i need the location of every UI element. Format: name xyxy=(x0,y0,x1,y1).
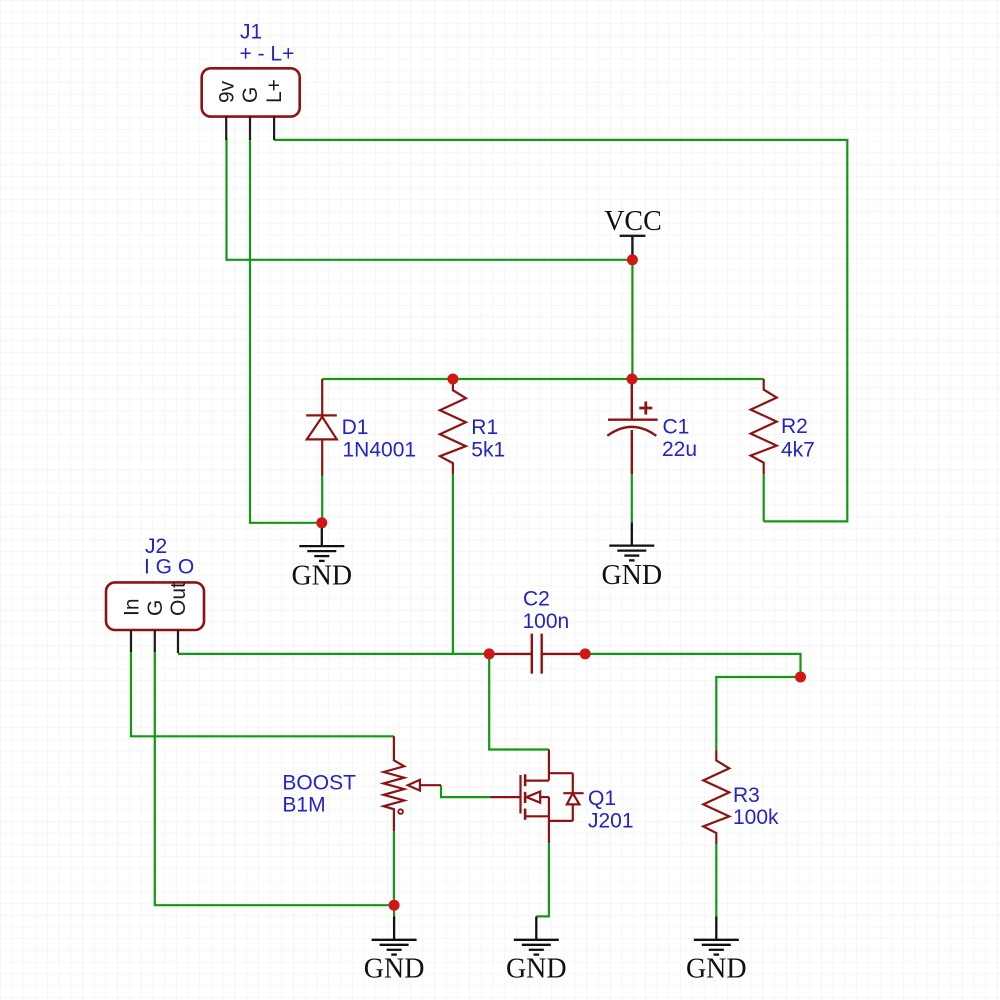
svg-text:J1: J1 xyxy=(240,21,262,44)
wire D1 cathode to GND junction xyxy=(321,475,323,523)
svg-text:22u: 22u xyxy=(662,438,697,461)
svg-text:L+: L+ xyxy=(263,79,286,103)
svg-text:R1: R1 xyxy=(471,416,498,439)
svg-text:+ - L+: + - L+ xyxy=(240,43,295,66)
wire pot wiper to Q1 gate xyxy=(441,785,491,797)
svg-text:B1M: B1M xyxy=(282,794,325,817)
svg-text:GND: GND xyxy=(686,954,747,985)
ground D1 xyxy=(299,523,344,561)
svg-text:100k: 100k xyxy=(733,806,779,829)
ground C1 xyxy=(609,522,654,560)
capacitor C2 xyxy=(489,634,585,674)
junction node C2 left xyxy=(484,648,495,659)
transistor Q1 xyxy=(491,750,584,844)
junction node D1 GND xyxy=(316,517,327,528)
wire R2 bottom xyxy=(763,474,765,521)
svg-text:Out: Out xyxy=(167,582,190,616)
power flag VCC xyxy=(620,236,646,260)
connector J1 xyxy=(202,68,300,140)
svg-text:D1: D1 xyxy=(342,416,369,439)
svg-text:R3: R3 xyxy=(733,784,760,807)
wire net VCC top from J1 pin3 L+ xyxy=(274,140,847,522)
svg-text:I G O: I G O xyxy=(144,556,194,579)
junction node rail R1 xyxy=(447,374,458,385)
svg-text:GND: GND xyxy=(364,954,425,985)
svg-text:VCC: VCC xyxy=(604,206,662,237)
wire Q1 source to GND xyxy=(536,843,549,916)
wire pot bottom to junction xyxy=(393,831,395,905)
svg-text:G: G xyxy=(239,87,262,103)
svg-text:1N4001: 1N4001 xyxy=(343,438,417,461)
diode D1 xyxy=(306,379,337,476)
wire C2 left node down to Q1 drain xyxy=(489,654,549,750)
wire R1 bottom to C2 node xyxy=(452,474,454,654)
wire C1 bottom to GND xyxy=(631,474,633,522)
junction node C2 right xyxy=(580,648,591,659)
ground R3 xyxy=(694,917,739,955)
wire pot junction to GND stub xyxy=(393,905,395,916)
svg-text:C1: C1 xyxy=(663,416,690,439)
resistor R1 xyxy=(440,379,466,474)
svg-text:R2: R2 xyxy=(781,415,808,438)
wire J2 G to pot-bottom junction xyxy=(155,652,394,906)
svg-text:J201: J201 xyxy=(588,810,634,833)
svg-text:G: G xyxy=(144,600,167,616)
svg-text:4k7: 4k7 xyxy=(781,439,815,462)
junction node R3 top xyxy=(795,672,806,683)
svg-text:GND: GND xyxy=(506,954,567,985)
ground BOOST pot xyxy=(372,917,417,955)
potentiometer BOOST xyxy=(384,736,441,831)
svg-text:In: In xyxy=(120,598,143,616)
wire VCC rail horizontal xyxy=(322,378,764,380)
wire J1 pin2 G to GND junction xyxy=(250,139,322,523)
svg-text:9v: 9v xyxy=(216,80,239,103)
wire VCC vertical drop xyxy=(631,260,633,379)
wire J2 Out to C2 left node xyxy=(178,653,489,655)
wire R3 bottom to GND xyxy=(715,844,717,917)
connector J2 xyxy=(106,582,204,653)
ground Q1 xyxy=(514,917,559,955)
capacitor C1 xyxy=(607,380,657,475)
resistor R2 xyxy=(751,379,777,474)
svg-text:100n: 100n xyxy=(523,610,570,633)
svg-text:C2: C2 xyxy=(523,588,550,611)
svg-text:Q1: Q1 xyxy=(588,787,616,810)
resistor R3 xyxy=(703,751,729,845)
svg-text:GND: GND xyxy=(601,560,662,591)
wire C2 right to R3 top xyxy=(585,654,800,751)
wire J1 pin1 9v to VCC node xyxy=(227,139,633,260)
svg-text:5k1: 5k1 xyxy=(471,438,505,461)
junction node pot bottom xyxy=(389,900,400,911)
junction node VCC xyxy=(627,254,638,265)
svg-text:GND: GND xyxy=(291,561,352,592)
svg-text:BOOST: BOOST xyxy=(282,772,356,795)
junction node rail C1 xyxy=(627,374,638,385)
wire J2 In to pot top xyxy=(131,652,394,737)
